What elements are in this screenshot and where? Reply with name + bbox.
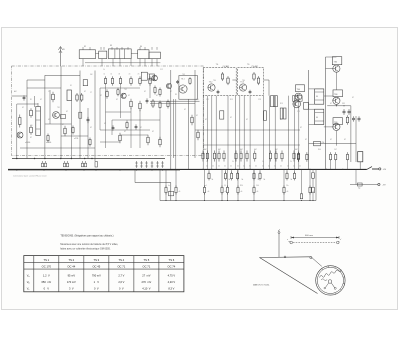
svg-text:TS.1: TS.1	[181, 79, 185, 81]
svg-text:1n: 1n	[243, 166, 245, 168]
svg-text:TS 1: TS 1	[43, 258, 49, 262]
svg-text:u5: u5	[287, 191, 289, 193]
svg-text:TS.2: TS.2	[209, 82, 213, 84]
svg-text:47: 47	[116, 99, 118, 101]
svg-text:r4: r4	[129, 74, 131, 76]
svg-text:1n: 1n	[206, 161, 208, 163]
svg-text:47: 47	[124, 131, 126, 133]
svg-text:1n: 1n	[262, 161, 264, 163]
svg-text:47: 47	[246, 119, 248, 121]
svg-text:5k: 5k	[258, 179, 260, 181]
svg-text:C3: C3	[48, 91, 50, 93]
svg-text:TS3: TS3	[182, 74, 185, 76]
svg-text:TS 6: TS 6	[169, 258, 175, 262]
svg-text:R9: R9	[175, 94, 177, 96]
svg-text:47: 47	[84, 91, 86, 93]
svg-text:220: 220	[196, 99, 199, 101]
svg-text:TS4: TS4	[297, 89, 300, 91]
svg-text:u27/6: u27/6	[74, 138, 78, 140]
svg-text:R15: R15	[230, 99, 233, 101]
svg-text:R30: R30	[240, 185, 243, 187]
svg-text:1n: 1n	[280, 166, 282, 168]
svg-text:TS 5: TS 5	[144, 258, 150, 262]
svg-text:47: 47	[66, 111, 68, 113]
svg-text:OC 170: OC 170	[42, 265, 52, 269]
svg-text:5k: 5k	[242, 179, 244, 181]
svg-text:47: 47	[352, 97, 354, 99]
svg-text:MA8 DN 70 7106L: MA8 DN 70 7106L	[253, 284, 270, 287]
svg-text:470: 470	[30, 125, 33, 127]
svg-text:u5: u5	[257, 191, 259, 193]
svg-text:R40: R40	[318, 149, 321, 151]
svg-text:27 mV: 27 mV	[142, 274, 150, 278]
svg-text:u5: u5	[179, 191, 181, 193]
svg-text:660 mm: 660 mm	[305, 235, 313, 237]
svg-text:47: 47	[205, 119, 207, 121]
svg-text:4k7: 4k7	[218, 149, 221, 151]
svg-text:TS2: TS2	[124, 89, 127, 91]
svg-text:47: 47	[330, 139, 332, 141]
svg-text:47: 47	[40, 99, 42, 101]
svg-text:a: a	[287, 239, 288, 241]
svg-text:Commutateur figuré : position: Commutateur figuré : position FM par res…	[13, 174, 47, 177]
svg-text:4k7: 4k7	[204, 149, 207, 151]
svg-text:1n: 1n	[230, 166, 232, 168]
svg-text:47: 47	[30, 137, 32, 139]
svg-text:C33: C33	[297, 111, 300, 113]
svg-text:4k7: 4k7	[254, 149, 257, 151]
svg-text:1n: 1n	[262, 166, 264, 168]
svg-text:u5: u5	[241, 191, 243, 193]
svg-text:C21: C21	[206, 99, 209, 101]
svg-text:2,6 V: 2,6 V	[118, 280, 124, 284]
svg-text:4u: 4u	[168, 185, 170, 187]
svg-text:0 V: 0 V	[44, 286, 50, 290]
svg-text:1n: 1n	[268, 166, 270, 168]
svg-text:r1: r1	[103, 74, 105, 76]
svg-text:1n: 1n	[299, 166, 301, 168]
svg-text:CV AM: CV AM	[251, 65, 258, 68]
svg-text:47: 47	[128, 95, 130, 97]
svg-text:R1: R1	[30, 99, 32, 101]
svg-text:u1: u1	[205, 185, 207, 187]
svg-text:r5: r5	[138, 74, 140, 76]
svg-text:50: 50	[224, 185, 226, 187]
svg-text:TS4: TS4	[213, 80, 216, 82]
svg-text:S6: S6	[316, 96, 318, 98]
svg-text:u5: u5	[313, 191, 315, 193]
svg-text:C12: C12	[160, 69, 163, 71]
svg-text:TS 3: TS 3	[93, 258, 99, 262]
svg-text:u5: u5	[169, 191, 171, 193]
svg-text:1n: 1n	[274, 166, 276, 168]
svg-text:47: 47	[300, 127, 302, 129]
svg-text:170 mV: 170 mV	[67, 280, 76, 284]
svg-text:1n: 1n	[237, 166, 239, 168]
svg-text:1n: 1n	[255, 166, 257, 168]
svg-text:OC 71: OC 71	[142, 265, 150, 269]
svg-text:270 mV: 270 mV	[142, 280, 152, 284]
svg-text:0 V: 0 V	[94, 286, 99, 290]
svg-text:CV AM: CV AM	[223, 65, 230, 68]
svg-text:4,75 V: 4,75 V	[168, 274, 176, 278]
svg-text:C28: C28	[258, 99, 261, 101]
svg-text:TS5: TS5	[334, 62, 337, 64]
svg-text:25u: 25u	[286, 185, 289, 187]
svg-text:4,20 V: 4,20 V	[168, 280, 176, 284]
svg-text:1n: 1n	[293, 166, 295, 168]
svg-text:OC 44: OC 44	[67, 265, 75, 269]
svg-text:47: 47	[144, 91, 146, 93]
svg-text:5k: 5k	[232, 161, 234, 163]
svg-text:C51: C51	[342, 103, 345, 105]
svg-text:TS1: TS1	[57, 107, 60, 109]
svg-text:1,2 V: 1,2 V	[43, 274, 50, 278]
svg-text:TS6: TS6	[334, 94, 337, 96]
svg-text:TS 4: TS 4	[119, 258, 125, 262]
svg-text:95 mV: 95 mV	[68, 274, 76, 278]
svg-text:r3: r3	[118, 74, 120, 76]
svg-text:47: 47	[156, 95, 158, 97]
svg-text:47: 47	[344, 139, 346, 141]
svg-text:4,10 V: 4,10 V	[142, 286, 150, 290]
svg-text:Mesurées avec une tension de b: Mesurées avec une tension de batterie de…	[60, 243, 118, 246]
svg-text:47: 47	[170, 91, 172, 93]
svg-text:3 V: 3 V	[69, 286, 74, 290]
svg-text:1n: 1n	[218, 166, 220, 168]
svg-text:u5: u5	[208, 191, 210, 193]
svg-text:47: 47	[152, 131, 154, 133]
svg-text:5k: 5k	[212, 179, 214, 181]
svg-text:TS.: TS.	[216, 64, 219, 66]
svg-text:faites avec un voltmètre élect: faites avec un voltmètre électronique GM…	[60, 247, 110, 250]
svg-text:790 mV: 790 mV	[92, 274, 101, 278]
svg-text:S2: S2	[84, 46, 86, 48]
svg-text:C47: C47	[334, 149, 337, 151]
svg-text:47: 47	[104, 123, 106, 125]
svg-text:47: 47	[196, 115, 198, 117]
svg-text:2,7 V: 2,7 V	[118, 274, 124, 278]
svg-text:1 V: 1 V	[94, 280, 100, 284]
svg-text:47: 47	[140, 127, 142, 129]
svg-text:1n: 1n	[287, 166, 289, 168]
svg-text:R19: R19	[280, 103, 283, 105]
svg-text:0 V: 0 V	[119, 286, 124, 290]
svg-text:4k7: 4k7	[275, 149, 278, 151]
svg-text:TENSIONS. (Négatives par rapp: TENSIONS. (Négatives par rapport au châs…	[60, 234, 113, 237]
svg-text:C7: C7	[90, 92, 92, 94]
svg-text:650 mV: 650 mV	[41, 280, 51, 284]
svg-text:1n: 1n	[212, 166, 214, 168]
svg-text:700: 700	[322, 142, 325, 144]
svg-text:8,3 V: 8,3 V	[168, 286, 174, 290]
svg-text:5k: 5k	[291, 179, 293, 181]
svg-text:47: 47	[100, 95, 102, 97]
svg-text:u5: u5	[225, 191, 227, 193]
svg-text:1n: 1n	[249, 166, 251, 168]
svg-text:OC 71: OC 71	[117, 265, 125, 269]
svg-text:5k: 5k	[229, 179, 231, 181]
svg-text:1k: 1k	[103, 69, 105, 71]
svg-text:47: 47	[230, 117, 232, 119]
svg-text:47: 47	[280, 119, 282, 121]
svg-text:TS 2: TS 2	[68, 258, 74, 262]
svg-text:S1: S1	[70, 85, 72, 87]
svg-text:1n: 1n	[224, 166, 226, 168]
svg-text:47: 47	[62, 124, 64, 126]
svg-text:S6: S6	[316, 117, 318, 119]
svg-text:4k7: 4k7	[240, 149, 243, 151]
svg-text:1n: 1n	[206, 166, 208, 168]
svg-text:OC 45: OC 45	[92, 265, 100, 269]
svg-text:r2: r2	[110, 74, 112, 76]
svg-text:47: 47	[330, 103, 332, 105]
svg-text:47: 47	[22, 107, 24, 109]
svg-text:47: 47	[90, 127, 92, 129]
svg-text:TS4: TS4	[242, 80, 245, 82]
svg-text:47: 47	[184, 109, 186, 111]
svg-text:C40: C40	[256, 185, 259, 187]
svg-text:mp: mp	[358, 188, 360, 190]
svg-text:4k7: 4k7	[295, 149, 298, 151]
svg-text:r6: r6	[148, 74, 150, 76]
svg-text:47: 47	[305, 139, 307, 141]
svg-text:u25/06: u25/06	[25, 142, 30, 144]
svg-text:47: 47	[48, 119, 50, 121]
svg-text:S3: S3	[110, 45, 112, 47]
svg-text:2k: 2k	[290, 161, 292, 163]
svg-text:5k: 5k	[264, 179, 266, 181]
svg-text:S4: S4	[140, 46, 142, 48]
svg-text:OC 74: OC 74	[168, 265, 176, 269]
svg-text:u26/06: u26/06	[46, 142, 51, 144]
